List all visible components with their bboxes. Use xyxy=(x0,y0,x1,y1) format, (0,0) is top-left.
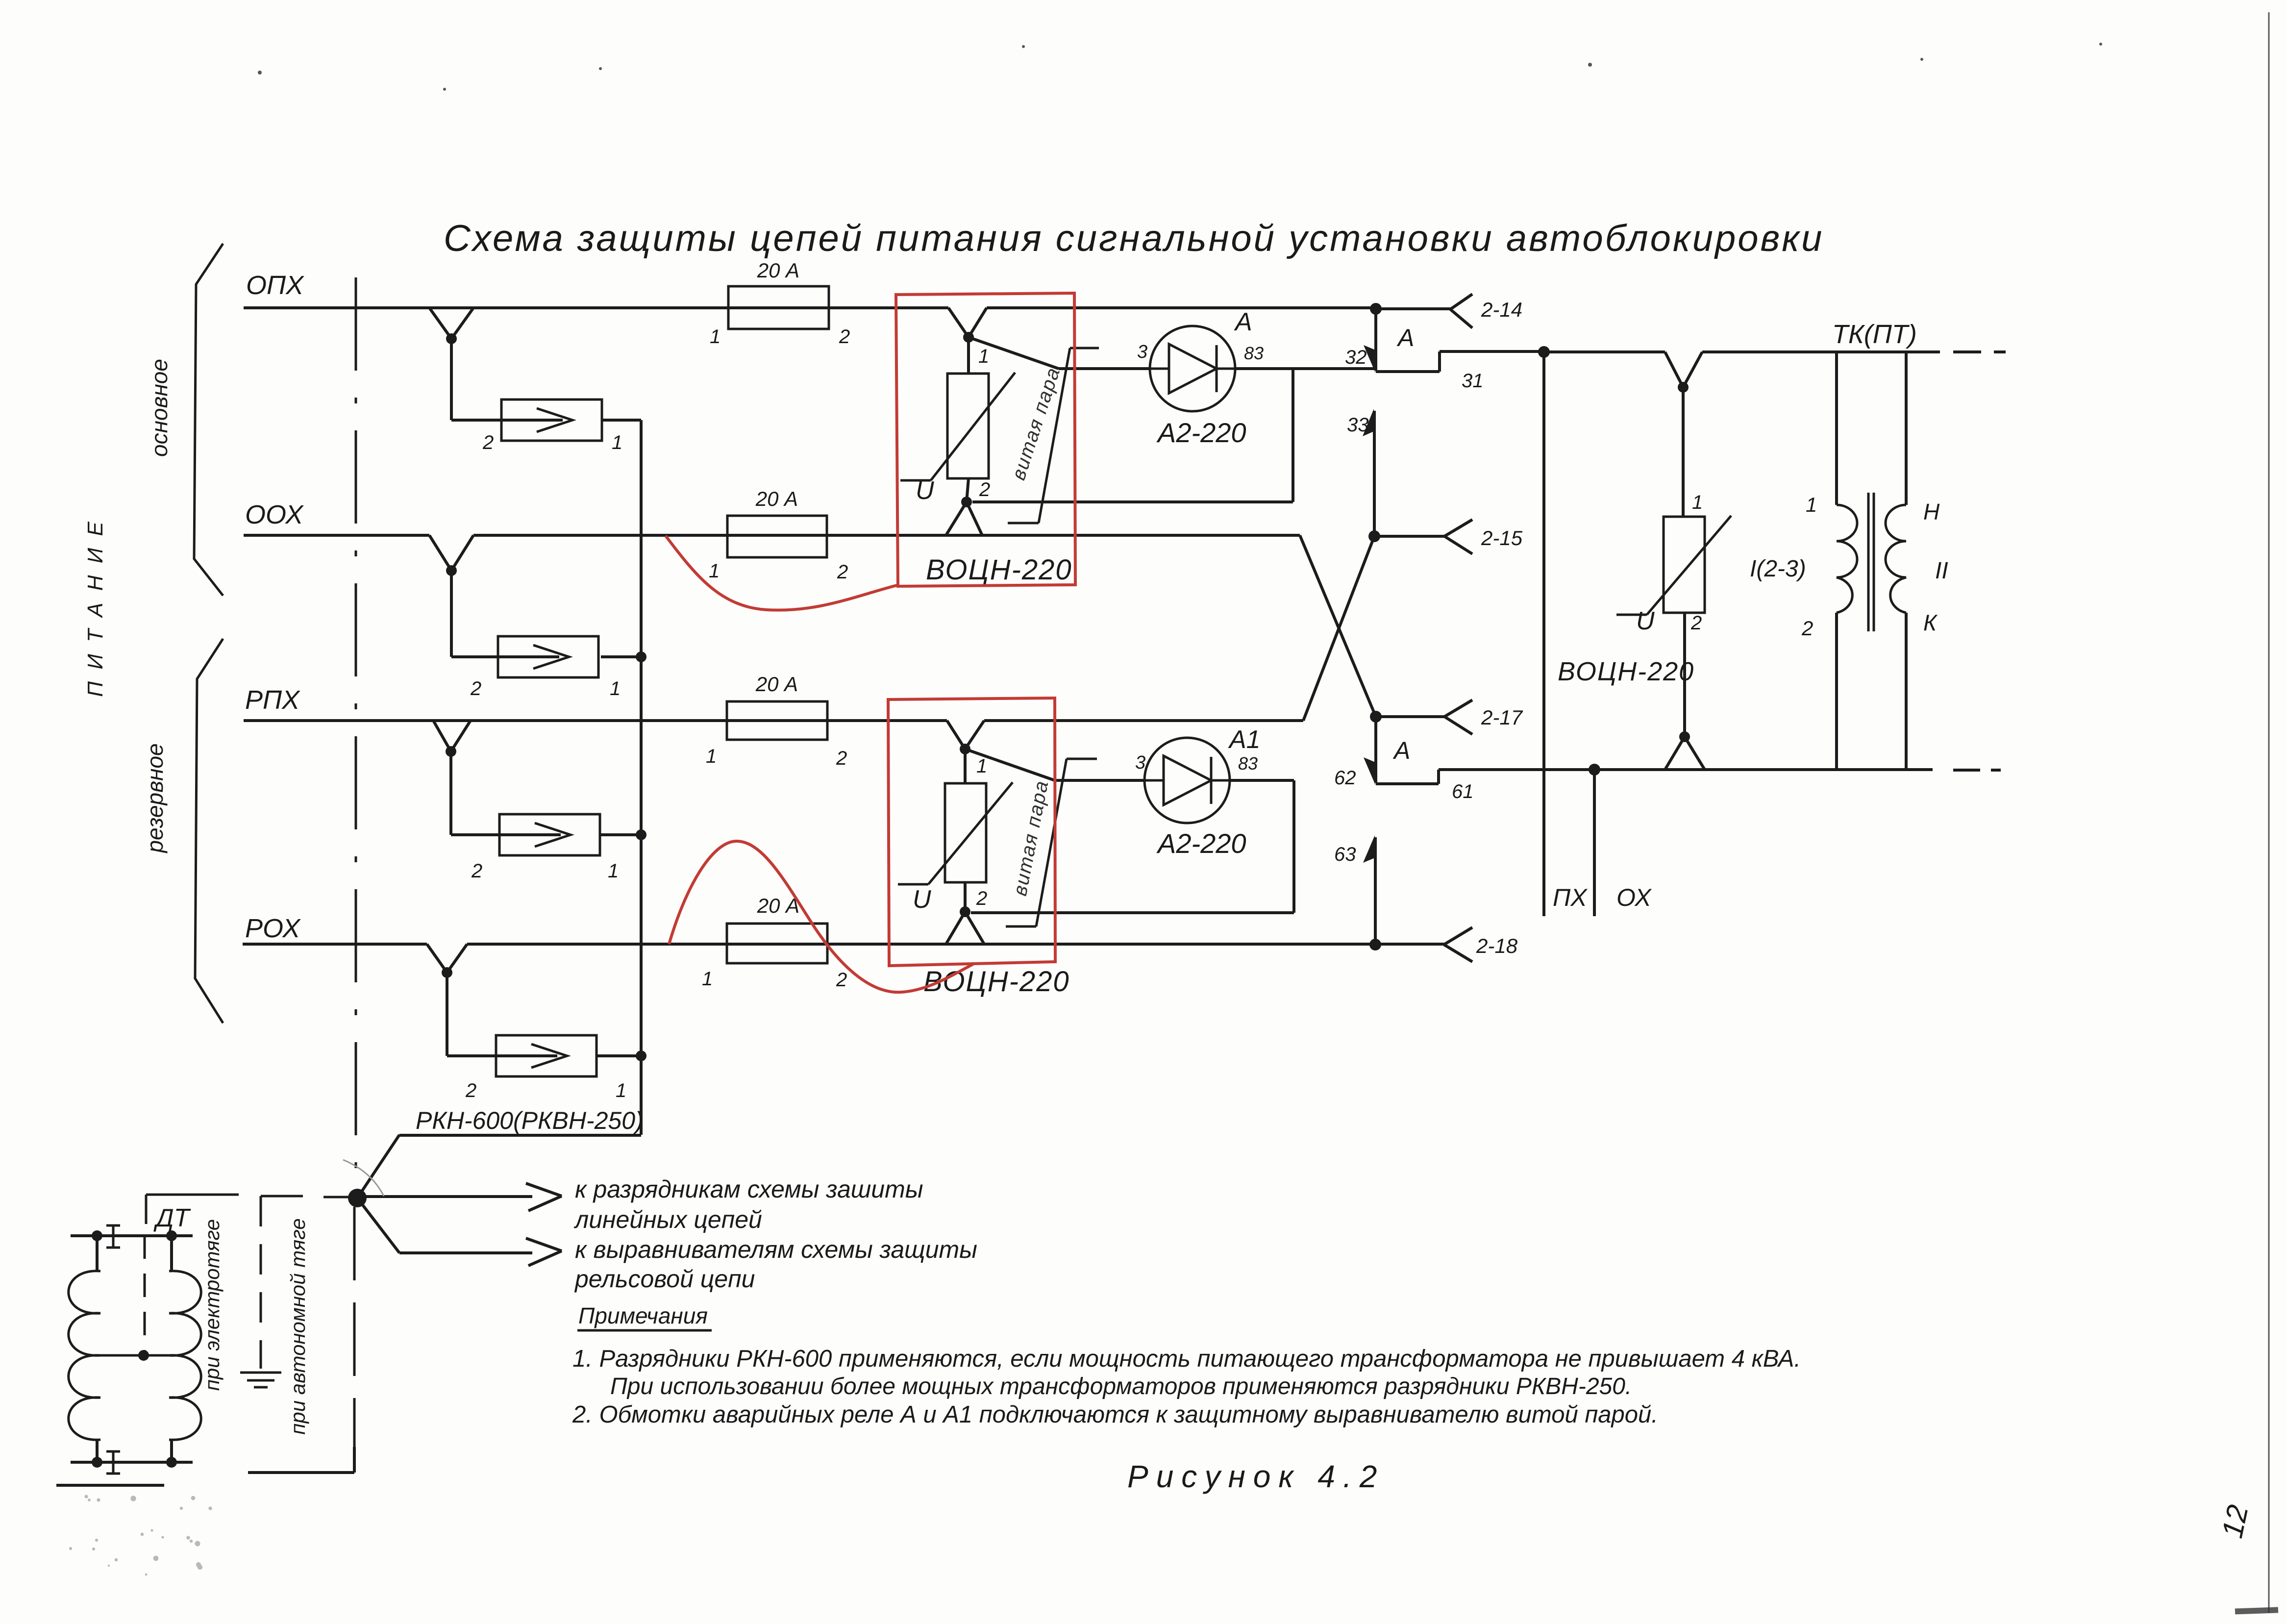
svg-text:1: 1 xyxy=(612,432,622,453)
svg-text:1: 1 xyxy=(709,560,720,582)
svg-text:к выравнивателям схемы защиты: к выравнивателям схемы защиты xyxy=(575,1236,977,1263)
svg-text:ВОЦН-220: ВОЦН-220 xyxy=(926,554,1072,586)
svg-text:ВОЦН-220: ВОЦН-220 xyxy=(1558,657,1694,686)
svg-text:ПХ: ПХ xyxy=(1553,884,1588,911)
svg-text:2: 2 xyxy=(1690,612,1702,634)
svg-text:2-15: 2-15 xyxy=(1481,526,1523,550)
svg-text:1: 1 xyxy=(976,755,987,777)
svg-text:20 А: 20 А xyxy=(757,894,799,917)
svg-text:2-17: 2-17 xyxy=(1481,706,1523,729)
svg-text:при электротяге: при электротяге xyxy=(200,1219,224,1391)
svg-text:31: 31 xyxy=(1462,370,1484,392)
svg-text:20 А: 20 А xyxy=(755,673,798,696)
svg-text:А: А xyxy=(1392,737,1410,764)
svg-text:РКН-600(РКВН-250): РКН-600(РКВН-250) xyxy=(416,1107,644,1134)
svg-text:основное: основное xyxy=(147,359,172,457)
svg-text:1: 1 xyxy=(1692,492,1703,513)
svg-text:1: 1 xyxy=(1806,493,1817,516)
svg-text:2: 2 xyxy=(470,678,481,700)
svg-text:2: 2 xyxy=(482,432,494,453)
svg-text:12: 12 xyxy=(2215,1502,2254,1541)
svg-text:ДТ: ДТ xyxy=(153,1204,191,1232)
svg-text:1: 1 xyxy=(710,326,721,348)
svg-text:U: U xyxy=(916,476,934,505)
svg-text:83: 83 xyxy=(1244,343,1264,363)
svg-text:А2-220: А2-220 xyxy=(1156,828,1246,859)
svg-text:ОХ: ОХ xyxy=(1616,884,1652,911)
svg-text:А: А xyxy=(1396,324,1414,351)
svg-text:2: 2 xyxy=(837,561,848,583)
svg-text:П И Т А Н И Е: П И Т А Н И Е xyxy=(83,519,107,697)
svg-text:1: 1 xyxy=(978,346,989,367)
svg-text:резервное: резервное xyxy=(142,743,168,853)
svg-text:2: 2 xyxy=(1801,617,1813,640)
svg-text:А2-220: А2-220 xyxy=(1156,417,1246,448)
svg-text:К: К xyxy=(1923,610,1938,635)
svg-text:линейных цепей: линейных цепей xyxy=(573,1206,762,1233)
svg-text:Схема защиты цепей питания сиг: Схема защиты цепей питания сигнальной ус… xyxy=(444,218,1824,259)
svg-text:62: 62 xyxy=(1334,767,1356,789)
svg-text:1: 1 xyxy=(702,968,713,990)
svg-text:U: U xyxy=(1636,607,1655,635)
svg-text:II: II xyxy=(1935,558,1948,584)
svg-text:При использовании более мощных: При использовании более мощных трансформ… xyxy=(610,1374,1632,1399)
svg-text:при автономной тяге: при автономной тяге xyxy=(286,1218,309,1435)
svg-text:ООХ: ООХ xyxy=(245,500,304,529)
svg-text:2-18: 2-18 xyxy=(1476,934,1518,957)
svg-text:3: 3 xyxy=(1135,752,1145,773)
svg-text:61: 61 xyxy=(1452,781,1474,802)
svg-text:1: 1 xyxy=(608,860,619,882)
svg-text:1: 1 xyxy=(616,1080,626,1101)
svg-text:А: А xyxy=(1234,308,1252,336)
svg-text:1: 1 xyxy=(610,678,621,700)
svg-text:к разрядникам схемы зашиты: к разрядникам схемы зашиты xyxy=(575,1175,923,1203)
svg-text:ТК(ПТ): ТК(ПТ) xyxy=(1832,320,1917,349)
svg-text:2: 2 xyxy=(836,969,847,991)
svg-text:2: 2 xyxy=(976,888,987,909)
svg-text:А1: А1 xyxy=(1228,725,1261,754)
svg-text:U: U xyxy=(913,885,931,914)
svg-text:РПХ: РПХ xyxy=(245,685,300,715)
svg-text:витая пара: витая пара xyxy=(1009,778,1053,898)
svg-text:рельсовой цепи: рельсовой цепи xyxy=(574,1265,755,1293)
svg-text:2: 2 xyxy=(836,748,847,769)
svg-text:63: 63 xyxy=(1334,844,1356,865)
svg-text:2: 2 xyxy=(839,326,850,348)
svg-text:83: 83 xyxy=(1238,753,1258,774)
svg-text:2: 2 xyxy=(979,479,990,500)
svg-text:I(2-3): I(2-3) xyxy=(1750,556,1806,582)
svg-text:20 А: 20 А xyxy=(755,487,798,510)
svg-text:ВОЦН-220: ВОЦН-220 xyxy=(923,966,1070,998)
svg-text:1. Разрядники РКН-600 применяю: 1. Разрядники РКН-600 применяются, если … xyxy=(572,1346,1801,1372)
svg-text:32: 32 xyxy=(1345,347,1367,368)
svg-text:Н: Н xyxy=(1923,499,1940,525)
svg-text:Примечания: Примечания xyxy=(578,1303,708,1328)
svg-text:РОХ: РОХ xyxy=(245,914,301,943)
svg-text:ОПХ: ОПХ xyxy=(246,271,304,300)
svg-text:33: 33 xyxy=(1347,414,1369,436)
svg-text:2. Обмотки аварийных реле А и: 2. Обмотки аварийных реле А и А1 подключ… xyxy=(572,1401,1658,1428)
svg-text:Рисунок 4.2: Рисунок 4.2 xyxy=(1127,1459,1385,1494)
svg-text:2: 2 xyxy=(465,1080,476,1101)
svg-text:1: 1 xyxy=(706,746,717,767)
svg-text:2: 2 xyxy=(471,860,482,882)
svg-text:3: 3 xyxy=(1137,342,1147,362)
svg-text:2-14: 2-14 xyxy=(1481,298,1522,321)
svg-text:20 А: 20 А xyxy=(757,259,799,282)
